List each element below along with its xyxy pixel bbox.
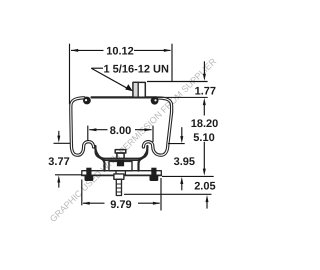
svg-text:18.20: 18.20 bbox=[191, 118, 219, 130]
svg-text:3.77: 3.77 bbox=[48, 156, 69, 168]
svg-text:1 5/16-12 UN: 1 5/16-12 UN bbox=[104, 63, 169, 75]
svg-text:8.00: 8.00 bbox=[110, 125, 131, 137]
svg-text:10.12: 10.12 bbox=[106, 46, 134, 58]
svg-text:5.10: 5.10 bbox=[193, 132, 214, 144]
svg-text:9.79: 9.79 bbox=[110, 199, 131, 211]
svg-text:2.05: 2.05 bbox=[194, 180, 215, 192]
svg-text:3.95: 3.95 bbox=[174, 156, 195, 168]
svg-text:1.77: 1.77 bbox=[195, 85, 216, 97]
